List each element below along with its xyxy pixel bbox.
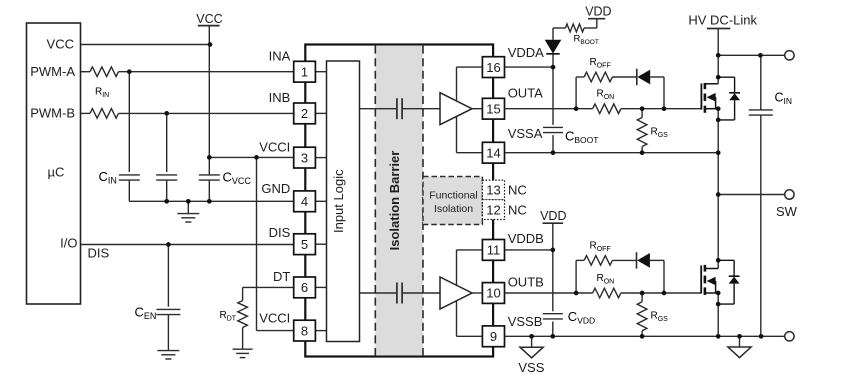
transistor Q2 low-side MOSFET <box>700 265 702 293</box>
svg-text:Isolation Barrier: Isolation Barrier <box>387 151 402 251</box>
svg-text:RGS: RGS <box>651 311 669 324</box>
svg-text:6: 6 <box>301 280 308 295</box>
wire DIS from uC I/O to pin5 <box>81 244 294 246</box>
wire R_BOOT to VDD <box>553 27 566 29</box>
pin 15 OUTA <box>482 98 504 119</box>
svg-text:VCC: VCC <box>47 37 74 52</box>
svg-text:RBOOT: RBOOT <box>574 34 599 47</box>
svg-text:RON: RON <box>597 89 615 102</box>
resistor R_BOOT <box>566 24 585 32</box>
terminal DC-Link negative <box>785 332 794 341</box>
power-ground triangle bottom right <box>728 347 751 358</box>
svg-text:CIN: CIN <box>99 169 117 186</box>
wire HV top to terminal <box>718 54 785 56</box>
svg-text:HV DC-Link: HV DC-Link <box>688 12 757 27</box>
svg-text:DIS: DIS <box>269 225 291 240</box>
pin 11 VDDB <box>482 240 504 261</box>
svg-text:Input Logic: Input Logic <box>331 169 346 233</box>
wire channel B through barrier <box>360 292 397 294</box>
ground symbol under C_EN <box>157 350 179 352</box>
svg-text:2: 2 <box>301 106 308 121</box>
VSS stub <box>531 336 533 347</box>
pin 3 VCCI <box>315 157 326 159</box>
terminal SW <box>785 190 794 199</box>
microcontroller box uC <box>27 23 81 304</box>
VCC supply bar <box>198 25 220 27</box>
svg-text:ROFF: ROFF <box>590 57 611 70</box>
resistor R_GS (B) <box>641 293 643 302</box>
terminal HV+ <box>785 51 794 60</box>
svg-text:PWM-A: PWM-A <box>30 64 75 79</box>
svg-text:VSSA: VSSA <box>508 126 543 141</box>
svg-text:4: 4 <box>301 194 308 209</box>
svg-text:VCCI: VCCI <box>259 310 290 325</box>
svg-text:Functional: Functional <box>429 189 477 201</box>
capacitor C_VCC <box>199 174 220 176</box>
wire VDDA to bootstrap rail <box>505 66 554 68</box>
svg-text:OUTA: OUTA <box>508 86 543 101</box>
svg-text:VCCI: VCCI <box>259 140 290 155</box>
svg-text:VDDB: VDDB <box>508 231 544 246</box>
driver A power stubs <box>456 67 458 103</box>
isolation barrier shaded strip <box>375 46 423 356</box>
svg-text:12: 12 <box>486 202 500 217</box>
svg-text:8: 8 <box>301 323 308 338</box>
svg-text:CIN: CIN <box>775 91 793 107</box>
diode anti-parallel A cathode bar <box>636 69 638 85</box>
wire VSSB bottom rail <box>505 335 785 337</box>
diode turn-off B body <box>637 253 650 268</box>
capacitor C_IN bulk <box>760 55 762 110</box>
junction dots right section <box>529 53 763 339</box>
coupling capacitor channel A <box>396 98 398 119</box>
svg-text:I/O: I/O <box>60 236 77 251</box>
svg-text:VDDA: VDDA <box>508 45 544 60</box>
svg-text:RON: RON <box>597 273 615 286</box>
R_OFF branch A <box>575 77 577 109</box>
op-amp driver triangle A <box>440 93 472 125</box>
svg-text:SW: SW <box>776 204 798 219</box>
VDD supply bar (top) <box>588 18 605 20</box>
functional isolation dashed box <box>423 177 482 225</box>
diode D_BOOT body <box>545 40 562 54</box>
junction dots left section <box>127 42 259 247</box>
svg-text:GND: GND <box>261 181 290 196</box>
HV DC-Link rail <box>717 29 719 84</box>
svg-text:11: 11 <box>487 243 501 258</box>
pin 12 NC <box>482 200 504 220</box>
capacitor C_IN (first) <box>119 174 140 176</box>
svg-text:DT: DT <box>273 269 290 284</box>
svg-text:RGS: RGS <box>651 127 669 140</box>
pin 9 VSSB <box>482 326 504 347</box>
svg-text:µC: µC <box>48 165 65 180</box>
VCCI rail down to pin 8 <box>256 157 258 330</box>
svg-text:15: 15 <box>486 101 500 116</box>
capacitor C_EN branch <box>167 245 169 307</box>
wire PWM-A to pin1 <box>81 71 91 73</box>
wire PWM-B to pin2 <box>81 112 91 114</box>
svg-text:VCC: VCC <box>196 12 222 26</box>
wire OUTA <box>505 108 593 110</box>
svg-text:CBOOT: CBOOT <box>565 128 598 145</box>
pin 13 NC <box>482 180 504 200</box>
IC body UCC21520 <box>305 45 493 357</box>
svg-text:RDT: RDT <box>220 310 237 323</box>
VSS power-ground triangle <box>520 347 543 358</box>
svg-text:16: 16 <box>486 60 500 75</box>
resistor R_ON (B) <box>593 288 621 298</box>
ground symbol under input caps <box>187 201 189 213</box>
pin 2 INB <box>315 112 326 114</box>
svg-text:VSS: VSS <box>518 360 544 375</box>
svg-text:RIN: RIN <box>95 87 109 100</box>
svg-text:VSSB: VSSB <box>508 314 543 329</box>
resistor R_IN (B) <box>90 109 119 119</box>
driver B power stubs <box>456 250 458 287</box>
svg-text:Isolation: Isolation <box>434 203 473 215</box>
svg-text:CVCC: CVCC <box>223 170 252 187</box>
svg-text:5: 5 <box>301 237 308 252</box>
resistor R_GS (A) <box>641 109 643 118</box>
wire triangle A apex to pin 15 <box>472 108 482 110</box>
svg-text:ROFF: ROFF <box>590 241 611 254</box>
resistor R_ON (A) <box>593 104 621 114</box>
svg-text:VDD: VDD <box>540 209 566 223</box>
capacitor C_BOOT <box>552 67 554 125</box>
wire INB cap branch <box>166 113 168 172</box>
svg-text:1: 1 <box>301 64 308 79</box>
svg-text:CVDD: CVDD <box>568 309 595 326</box>
svg-text:10: 10 <box>486 286 500 301</box>
pin 14 VSSA <box>482 142 504 163</box>
svg-text:NC: NC <box>508 183 527 198</box>
R_OFF branch B <box>575 260 577 293</box>
svg-text:VDD: VDD <box>585 5 611 19</box>
coupling capacitor channel B <box>396 283 398 304</box>
svg-text:DIS: DIS <box>88 246 110 261</box>
wire triangle B apex to pin 10 <box>472 292 482 294</box>
input logic box <box>327 61 360 342</box>
capacitor C_VDD <box>552 250 554 311</box>
wire OUTB <box>505 292 593 294</box>
wire channel A through barrier <box>360 108 397 110</box>
diode turn-off A body <box>637 70 650 85</box>
diode turn-off B cathode bar <box>636 252 638 268</box>
pin 1 INA <box>315 71 326 73</box>
bootstrap diode D_BOOT vertical lead <box>552 54 554 67</box>
wire SW node <box>718 194 785 196</box>
svg-text:9: 9 <box>490 329 497 344</box>
pin 8 VCCI <box>315 330 326 332</box>
wire INA cap branch <box>128 72 130 172</box>
pin 16 VDDA <box>482 57 504 78</box>
svg-text:INA: INA <box>269 49 291 64</box>
VDD supply B <box>543 222 563 224</box>
svg-text:3: 3 <box>301 150 308 165</box>
ground bus wire <box>129 200 293 202</box>
VCC supply rail vertical <box>208 26 210 175</box>
wire DT to R_DT <box>243 286 294 288</box>
svg-text:INB: INB <box>269 90 291 105</box>
svg-text:NC: NC <box>508 202 527 217</box>
pin 6 DT <box>315 286 326 288</box>
svg-text:PWM-B: PWM-B <box>30 106 75 121</box>
ground stub bottom right <box>739 336 741 347</box>
resistor R_IN (A) <box>90 67 119 77</box>
wire VCCI pin3 <box>209 156 293 158</box>
svg-text:14: 14 <box>486 145 500 160</box>
resistor R_DT <box>238 301 248 328</box>
svg-text:13: 13 <box>486 183 500 198</box>
capacitor C_EN <box>156 308 180 310</box>
op-amp driver triangle B <box>440 277 472 309</box>
wire VCC from uC to VCC rail <box>81 44 211 46</box>
pin 5 DIS <box>315 243 326 245</box>
transistor Q1 high-side MOSFET <box>700 83 702 109</box>
body diode Q1 <box>718 77 740 120</box>
pin 10 OUTB <box>482 283 504 304</box>
ground symbol under R_DT <box>233 348 253 350</box>
capacitor C_IN (second) <box>156 174 177 176</box>
pin 4 GND <box>315 200 326 202</box>
wire VSSA <box>505 152 719 154</box>
svg-text:OUTB: OUTB <box>508 274 544 289</box>
rail low-side to bottom <box>717 293 719 336</box>
body diode Q2 <box>718 260 739 304</box>
svg-text:CEN: CEN <box>135 305 157 322</box>
wire VDDB <box>505 249 553 251</box>
